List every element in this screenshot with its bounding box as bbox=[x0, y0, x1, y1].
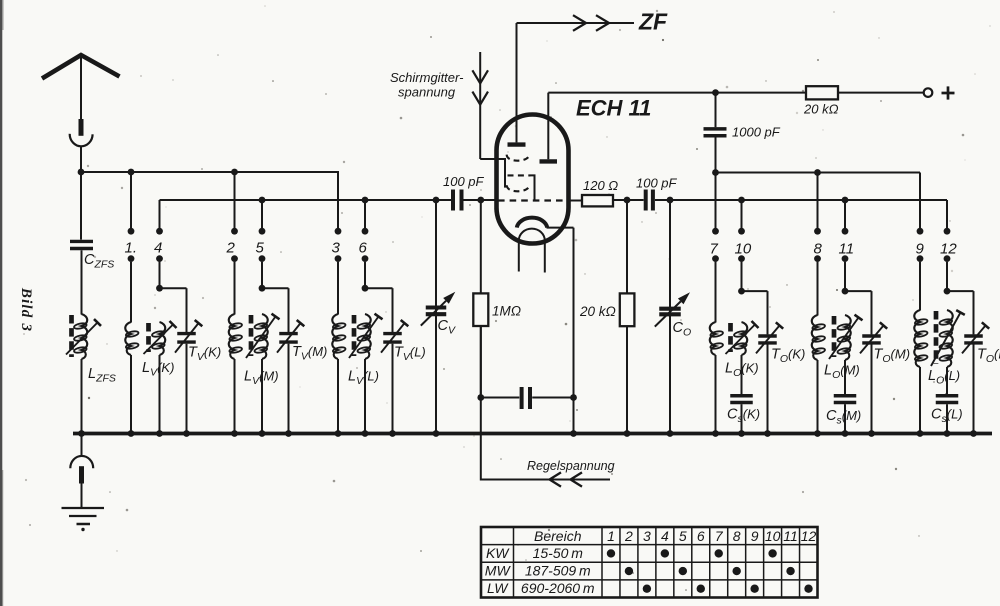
wire CV to bus bbox=[433, 430, 440, 437]
wire L_O(L) tuned winding to C_s(L) bbox=[946, 367, 948, 394]
wire C_s(M) to bus bbox=[844, 404, 846, 433]
wire trimmer branch T_V(L) bbox=[365, 288, 393, 332]
svg-text:690-2060 m: 690-2060 m bbox=[521, 580, 595, 596]
capacitor 1000pF bbox=[704, 129, 727, 136]
label ZF bbox=[638, 9, 668, 35]
antenna bbox=[42, 55, 120, 120]
wire AVC line down bbox=[480, 326, 482, 398]
capacitor C_s(M) bbox=[834, 396, 857, 403]
ground bbox=[62, 508, 105, 531]
wire L_O(M) tuned winding to C_s(M) bbox=[844, 360, 846, 394]
node contact 8 tap bbox=[814, 169, 821, 176]
svg-text:5: 5 bbox=[256, 240, 265, 257]
svg-text:120 Ω: 120 Ω bbox=[583, 178, 618, 193]
svg-text:4: 4 bbox=[661, 528, 669, 544]
svg-text:ZF: ZF bbox=[638, 9, 668, 35]
wire osc bus bbox=[655, 199, 947, 201]
wire trimmer branch T_O(L) bbox=[947, 291, 974, 334]
svg-text:6: 6 bbox=[697, 528, 705, 544]
capacitor C_s(L) bbox=[936, 396, 959, 403]
wire trimmer branch T_V(K) bbox=[160, 288, 187, 332]
wire switch contact 1. bbox=[128, 172, 135, 323]
svg-text:12: 12 bbox=[801, 528, 817, 544]
wire 20k drop bbox=[626, 200, 628, 293]
svg-text:3: 3 bbox=[643, 528, 651, 544]
node bus junction x=871.5 bbox=[868, 430, 875, 437]
wire 1M to AVC node bbox=[480, 326, 482, 398]
label Schirmgitter- bbox=[390, 70, 464, 85]
terminal plus bbox=[924, 86, 955, 99]
node switch column 5 tap bbox=[259, 197, 266, 204]
wire L_V(L) fixed winding to bus bbox=[337, 359, 339, 434]
node bus junction x=159.5 bbox=[156, 430, 163, 437]
wire grid leak drop bbox=[480, 200, 482, 293]
svg-text:Schirmgitter-: Schirmgitter- bbox=[390, 70, 464, 85]
capacitor C_s(K) bbox=[730, 396, 753, 403]
svg-text:KW: KW bbox=[486, 545, 510, 561]
svg-text:spannung: spannung bbox=[398, 85, 456, 100]
wire grid bus bbox=[160, 199, 498, 201]
label 1M bbox=[492, 304, 521, 319]
node trimmer branch T_O(L) bbox=[944, 288, 951, 295]
band table row KW bbox=[486, 545, 777, 561]
wire trimmer branch T_O(K) bbox=[742, 291, 768, 334]
trimmer capacitor T_V(K) bbox=[175, 320, 202, 353]
node bus junction x=920 bbox=[917, 430, 924, 437]
node trimmer branch T_O(K) bbox=[738, 288, 745, 295]
svg-text:3: 3 bbox=[332, 240, 341, 257]
wire trimmer branch T_V(M) bbox=[262, 288, 289, 332]
label L_O(K) bbox=[725, 361, 759, 380]
wire T_V(K) to bus bbox=[186, 344, 188, 434]
inductor L_O(K) fixed winding bbox=[710, 322, 724, 355]
label contact 7 bbox=[710, 241, 719, 258]
svg-text:12: 12 bbox=[940, 241, 957, 258]
wire 120R to 100pF bbox=[613, 199, 644, 201]
arrow ZF 1 bbox=[573, 15, 586, 31]
svg-text:2: 2 bbox=[624, 528, 633, 544]
capacitor C_ZFS bbox=[70, 241, 93, 248]
svg-text:10: 10 bbox=[735, 241, 752, 258]
wire Regelspannung line bbox=[481, 398, 610, 480]
label contact 12 bbox=[940, 241, 957, 258]
svg-text:20 kΩ: 20 kΩ bbox=[579, 304, 616, 319]
node bus junction x=186.5 bbox=[183, 430, 190, 437]
wire CO to bus bbox=[667, 430, 674, 437]
wire antenna to C_ZFS bbox=[80, 172, 82, 240]
label 100pF input bbox=[443, 174, 485, 189]
label C_O bbox=[673, 320, 692, 339]
trimmer capacitor T_V(L) bbox=[381, 320, 408, 353]
wire L_O(L) fixed winding to bus bbox=[919, 367, 921, 434]
wire switch contact 11 bbox=[842, 200, 849, 289]
wire L_V(L) tuned winding to bus bbox=[364, 359, 366, 434]
wire bottom bus bbox=[73, 432, 992, 436]
wire trimmer branch T_O(M) bbox=[845, 291, 872, 334]
node switch column 6 tap bbox=[362, 197, 369, 204]
label C_s(L) bbox=[931, 407, 963, 426]
wire switch contact 5 bbox=[259, 200, 266, 286]
node AVC left bbox=[477, 394, 484, 401]
svg-text:1: 1 bbox=[607, 528, 615, 544]
wire L_ZFS to bus bbox=[81, 359, 83, 434]
capacitor 100pF osc bbox=[646, 190, 653, 211]
svg-text:8: 8 bbox=[733, 528, 741, 544]
tube heater bbox=[519, 229, 545, 273]
svg-text:1.: 1. bbox=[125, 240, 138, 257]
caption Bild 3 bbox=[18, 287, 34, 332]
arrow ZF 2 bbox=[596, 15, 609, 31]
svg-text:ECH 11: ECH 11 bbox=[576, 96, 651, 121]
label L_V(K) bbox=[142, 360, 174, 379]
svg-text:Regelspannung: Regelspannung bbox=[527, 459, 615, 473]
band table row LW bbox=[487, 580, 813, 596]
wire L_V(K) tuned winding to bus bbox=[159, 355, 161, 434]
node CV tap bbox=[433, 197, 440, 204]
label 20k anode bbox=[803, 102, 839, 117]
node antenna/bus junction bbox=[78, 169, 85, 176]
trimmer capacitor T_O(K) bbox=[756, 322, 783, 353]
node bus junction x=262 bbox=[259, 430, 266, 437]
inductor L_V(K) tuned winding bbox=[144, 321, 177, 355]
label contact 8 bbox=[814, 241, 823, 258]
label T_O(L) bbox=[977, 347, 1000, 366]
svg-text:5: 5 bbox=[679, 528, 687, 544]
svg-text:187-509 m: 187-509 m bbox=[525, 562, 591, 578]
scanner edge shadow bbox=[0, 0, 4, 606]
wire T_O(L) to bus bbox=[973, 345, 975, 434]
tube control grid (signal line) bbox=[498, 199, 568, 201]
capacitor 100pF input bbox=[453, 190, 462, 211]
node bus junction x=947 bbox=[944, 430, 951, 437]
wire T_O(M) to bus bbox=[871, 345, 873, 434]
capacitor cathode bypass bbox=[522, 387, 530, 409]
tube hexode anode bbox=[508, 23, 526, 145]
node bus junction x=817.5 bbox=[814, 430, 821, 437]
wire cathode lead bbox=[547, 228, 574, 398]
svg-text:MW: MW bbox=[485, 562, 512, 578]
label contact 9 bbox=[916, 241, 925, 258]
wire bus to ground plug bbox=[81, 434, 83, 457]
inductor L_O(L) tuned winding bbox=[931, 310, 965, 367]
inductor L_O(L) fixed winding bbox=[914, 310, 928, 367]
wire AVC cap right bbox=[532, 397, 573, 399]
label T_V(M) bbox=[292, 344, 327, 363]
inductor L_O(K) tuned winding bbox=[726, 321, 759, 355]
wire CV branch bbox=[435, 200, 437, 434]
label 1000pF bbox=[732, 125, 781, 140]
wire rail to terminal bbox=[838, 92, 924, 94]
svg-text:11: 11 bbox=[839, 241, 855, 258]
wire ZF output bbox=[517, 22, 635, 24]
node trimmer branch T_V(M) bbox=[259, 285, 266, 292]
node contact 7 tap bbox=[712, 169, 719, 176]
wire switch contact 7 bbox=[712, 173, 719, 323]
svg-text:20 kΩ: 20 kΩ bbox=[803, 102, 839, 117]
resistor 20k anode bbox=[806, 86, 838, 99]
wire C_s(K) to bus bbox=[741, 404, 743, 433]
inductor L_O(M) fixed winding bbox=[812, 315, 826, 360]
tube hexode grid g4 bbox=[507, 185, 530, 191]
svg-text:7: 7 bbox=[715, 528, 724, 544]
wire anode rail bbox=[548, 92, 806, 94]
wire osc top bus bbox=[716, 172, 921, 174]
node bus junction x=392.5 bbox=[389, 430, 396, 437]
label T_V(L) bbox=[394, 345, 426, 364]
tube hexode grid g1 bbox=[507, 155, 530, 161]
label T_O(K) bbox=[771, 347, 805, 366]
node bus junction x=715.5 bbox=[712, 430, 719, 437]
wire switch contact 2 bbox=[231, 172, 238, 315]
label contact 4 bbox=[154, 240, 162, 257]
inductor L_V(K) fixed winding bbox=[125, 322, 139, 355]
label L_V(L) bbox=[348, 369, 379, 388]
label 20k bbox=[579, 304, 616, 319]
svg-text:100 pF: 100 pF bbox=[443, 174, 485, 189]
wire 20k to bus bbox=[624, 326, 631, 437]
node trimmer branch T_V(L) bbox=[362, 285, 369, 292]
label contact 6 bbox=[359, 240, 368, 257]
wire switch contact 12 bbox=[944, 200, 951, 289]
wire L_V(K) fixed winding to bus bbox=[130, 355, 132, 434]
wire switch contact 9 bbox=[917, 173, 924, 311]
tube cathode bbox=[517, 218, 547, 228]
label spannung bbox=[398, 85, 456, 100]
wire 1000pF to osc top bus bbox=[715, 137, 717, 172]
resistor 120R bbox=[582, 195, 613, 206]
svg-text:Bild 3: Bild 3 bbox=[18, 287, 34, 332]
node L_ZFS bus junction bbox=[78, 430, 85, 437]
svg-text:15-50 m: 15-50 m bbox=[533, 545, 584, 561]
wire top bus left bbox=[81, 171, 339, 173]
wire switch contact 6 bbox=[362, 200, 369, 286]
label T_V(K) bbox=[188, 345, 221, 364]
svg-text:11: 11 bbox=[783, 528, 798, 544]
wire grid line to 120R bbox=[568, 200, 583, 202]
wire L_V(M) tuned winding to bus bbox=[261, 359, 263, 434]
wire screen grid entry bbox=[480, 159, 505, 188]
node bus junction x=845 bbox=[842, 430, 849, 437]
inductor L_O(M) tuned winding bbox=[829, 315, 863, 360]
trimmer capacitor T_O(L) bbox=[962, 322, 989, 353]
wire T_O(K) to bus bbox=[767, 345, 769, 434]
arrow Regelspannung 2 bbox=[571, 472, 583, 486]
label L_V(M) bbox=[244, 369, 279, 388]
svg-text:2: 2 bbox=[226, 240, 236, 257]
band table header bbox=[534, 528, 817, 544]
wire L_O(M) fixed winding to bus bbox=[817, 360, 819, 434]
label C_s(M) bbox=[826, 408, 861, 427]
node trimmer branch T_V(K) bbox=[156, 285, 163, 292]
svg-text:1MΩ: 1MΩ bbox=[492, 304, 521, 319]
wire C_ZFS to L_ZFS bbox=[81, 250, 83, 314]
node 1000pF tap bbox=[712, 89, 719, 96]
wire Schirmgitterspannung bbox=[479, 52, 481, 159]
resistor 1M bbox=[473, 293, 488, 326]
label L_ZFS bbox=[88, 366, 116, 385]
svg-text:6: 6 bbox=[359, 240, 368, 257]
svg-text:7: 7 bbox=[710, 241, 719, 258]
node bus junction x=288.5 bbox=[285, 430, 292, 437]
inductor L_V(L) tuned winding bbox=[349, 314, 383, 359]
arrow Regelspannung 1 bbox=[550, 472, 562, 486]
label T_O(M) bbox=[874, 347, 911, 366]
svg-text:9: 9 bbox=[751, 528, 759, 544]
tube hexode grid g2 bbox=[508, 175, 535, 199]
label L_O(L) bbox=[928, 368, 960, 387]
wire AVC cap left bbox=[481, 397, 520, 399]
arrow Schirmgitter 1 bbox=[472, 70, 488, 83]
wire ground plug connector bbox=[70, 456, 93, 508]
wire cathode to bus bbox=[570, 398, 577, 437]
inductor L_V(M) tuned winding bbox=[246, 314, 280, 359]
node bus junction x=365 bbox=[362, 430, 369, 437]
node CO tap bbox=[667, 197, 674, 204]
label 120R bbox=[583, 178, 618, 193]
node grid-leak tap bbox=[477, 197, 484, 204]
label contact 1. bbox=[125, 240, 138, 257]
node bus junction x=338 bbox=[335, 430, 342, 437]
label 100pF osc bbox=[636, 176, 678, 191]
wire switch contact 4 bbox=[156, 200, 163, 286]
wire switch contact 8 bbox=[814, 173, 821, 316]
node switch column 2 tap bbox=[231, 169, 238, 176]
svg-text:Bereich: Bereich bbox=[534, 528, 582, 544]
inductor L_V(L) fixed winding bbox=[332, 314, 346, 359]
variable capacitor C_O bbox=[655, 292, 690, 326]
inductor L_V(M) fixed winding bbox=[229, 314, 243, 359]
svg-text:9: 9 bbox=[916, 241, 925, 258]
wire L_O(K) fixed winding to bus bbox=[715, 355, 717, 434]
label contact 10 bbox=[735, 241, 752, 258]
svg-text:1000 pF: 1000 pF bbox=[732, 125, 781, 140]
label contact 5 bbox=[256, 240, 265, 257]
wire 1000pF drop bbox=[715, 93, 717, 128]
arrow Schirmgitter 2 bbox=[472, 92, 488, 105]
svg-text:100 pF: 100 pF bbox=[636, 176, 678, 191]
node contact 10 tap bbox=[738, 197, 745, 204]
node bus junction x=973.5 bbox=[970, 430, 977, 437]
wire T_V(M) to bus bbox=[288, 344, 290, 434]
node 20k tap bbox=[624, 197, 631, 204]
svg-text:4: 4 bbox=[154, 240, 162, 257]
inductor L_ZFS bbox=[66, 314, 101, 359]
wire CO branch bbox=[669, 200, 671, 434]
label Regelspannung bbox=[527, 459, 615, 473]
label contact 2 bbox=[226, 240, 236, 257]
trimmer capacitor T_V(M) bbox=[277, 320, 304, 353]
svg-text:LW: LW bbox=[487, 580, 509, 596]
svg-text:10: 10 bbox=[765, 528, 781, 544]
band table frame bbox=[481, 527, 818, 598]
wire antenna plug connector bbox=[70, 119, 93, 172]
wire switch contact 3 bbox=[335, 172, 342, 315]
svg-text:8: 8 bbox=[814, 241, 823, 258]
node bus junction x=234.5 bbox=[231, 430, 238, 437]
label C_ZFS bbox=[84, 252, 114, 271]
wire switch contact 10 bbox=[738, 200, 745, 289]
node bus junction x=741.5 bbox=[738, 430, 745, 437]
label ECH11 bbox=[576, 96, 651, 121]
wire T_V(L) to bus bbox=[392, 344, 394, 434]
label C_s(K) bbox=[727, 407, 760, 426]
trimmer capacitor T_O(M) bbox=[860, 322, 887, 353]
node bus junction x=767.5 bbox=[764, 430, 771, 437]
node bus junction x=131 bbox=[128, 430, 135, 437]
label L_O(M) bbox=[824, 363, 860, 382]
node switch column 1 tap bbox=[128, 169, 135, 176]
label contact 11 bbox=[839, 241, 855, 258]
variable capacitor C_V bbox=[421, 292, 456, 326]
wire L_V(M) fixed winding to bus bbox=[234, 359, 236, 434]
label contact 3 bbox=[332, 240, 341, 257]
resistor 20k bbox=[620, 293, 635, 326]
band table row MW bbox=[485, 562, 795, 578]
wire L_O(K) tuned winding to C_s(K) bbox=[741, 355, 743, 394]
node contact 11 tap bbox=[842, 197, 849, 204]
tube triode anode bbox=[540, 93, 558, 162]
node cathode junction bbox=[570, 394, 577, 401]
label C_V bbox=[438, 318, 456, 337]
tube ECH11 envelope bbox=[497, 115, 569, 244]
node trimmer branch T_O(M) bbox=[842, 288, 849, 295]
wire C_s(L) to bus bbox=[946, 404, 948, 433]
